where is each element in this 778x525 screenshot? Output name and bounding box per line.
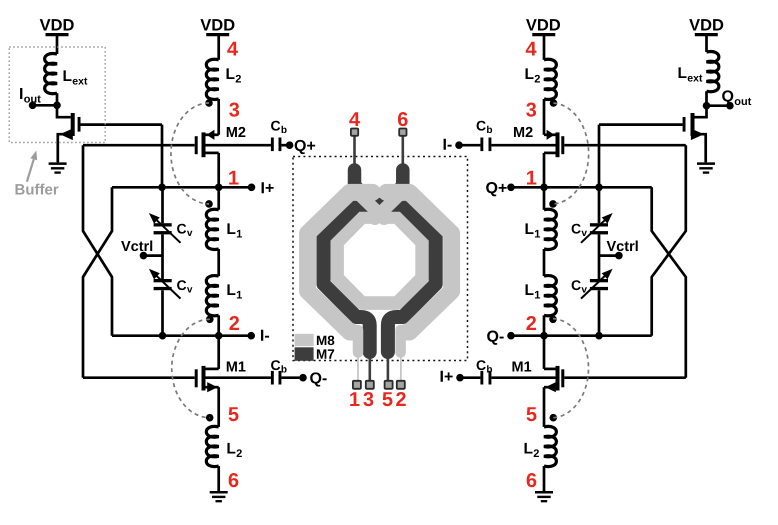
transformer M7 top via stubs [355,170,403,193]
Buffer label with arrow [16,151,59,195]
node 2 wire I- (left) [112,316,269,341]
inductor Lext (left buffer) [45,53,88,93]
transistor buffer left [57,105,162,162]
coupling dashed arc L1-L2 (right bottom) [553,319,588,418]
wire M1 to Cb (left bottom) [206,376,271,379]
cross-coupling X wires (left) [83,145,112,378]
coupling dot top of L1 (right) [549,200,557,208]
wire L2 to ground (right) [543,466,546,491]
coupling dot top of L1 (left) [205,200,213,208]
wire M2 gate to cross-coupling (left) [83,144,195,147]
inductor Lext (right buffer) [679,51,719,91]
node 3 label (right) [526,103,536,117]
legend metal M7 [295,347,335,361]
varactor Cv (right bottom) [572,269,613,299]
ground (left core) [210,492,228,501]
node I+ input (right) [441,371,464,382]
transformer port 1 lead and pad [350,349,361,406]
transformer winding M8 inner turn [337,217,422,303]
wire M2 to Cb (left top) [206,144,271,147]
varactor Cv (left top) [149,213,193,243]
cross-coupling X wires (right) [652,145,686,378]
transistor M2 (right) [514,127,564,187]
wire between L1 coils (left) [217,249,220,276]
wire M1 gate to cross-coupling (right) [564,376,686,379]
ground (left buffer) [49,164,67,173]
wire L2 to M2 drain [217,99,220,135]
capacitor Cb (right top) [459,121,492,151]
wire L2 to ground (left) [217,466,220,491]
node Iout [20,88,61,109]
transformer M7 crossover diagonals at top [355,185,403,208]
inductor L1 (right lower) [526,276,557,316]
node Q+ output (left) [286,140,315,154]
transformer port 6 via stub and pad [398,112,408,168]
transistor buffer right [599,106,707,163]
inductor L1 (left lower) [206,276,242,316]
coupling dashed arc L1-L2 (left bottom) [172,319,210,417]
wire node1 to L1 (left) [217,187,220,210]
capacitor Cb (left top) [271,121,287,151]
transformer port 4 via stub and pad [349,112,360,168]
wire L2 to M2 drain (right) [543,99,546,135]
buffer dashed outline box [9,47,105,143]
wire Cb to M2 (right top) [491,144,555,147]
ground (right core) [535,492,553,501]
capacitor Cb (right bottom) [463,360,493,384]
transformer winding M8 outer turn left half [308,192,373,332]
node 6 label (left) [229,473,239,487]
wire Lext to buffer drain [56,93,59,105]
node 5 label (right) [527,407,537,421]
legend metal M8 [295,334,335,346]
wire M1 gate to cross-coupling (left) [83,376,195,379]
transformer M8 crossover diagonals at top [361,196,398,219]
power rail VDD (left core) [200,19,234,34]
wire buffer gate tap to node 1 (left) [161,125,164,188]
node Q- output (left) [299,372,326,386]
wire L1 to node 2 (left) [217,315,220,335]
transistor M1 (right) [512,336,564,427]
wire node1 to L1 (right) [543,187,546,210]
wire L1 to node 2 (right) [543,315,546,335]
inductor L2 (left bottom) [206,426,242,466]
node Vctrl (left) [121,240,162,259]
coupling dot bottom of L1 (right) [549,316,557,324]
node 3 label (left) [229,103,239,117]
inductor L2 (left top) [206,59,241,99]
node 2 wire Q- (right) [487,316,652,345]
power rail VDD (right buffer) [689,19,723,34]
inductor L1 (left upper) [206,209,242,249]
coupling dot top of M2 (left) [205,99,213,107]
coupling dot below M1 (left) [206,414,214,422]
wire Cb to M1 (right bottom) [491,376,555,379]
varactor branch wire (right) [598,187,601,335]
node 1 wire Q+ (right) [486,171,652,197]
transformer winding M8 outer turn right half [387,192,452,332]
wire VDD to Lext [56,36,59,54]
node 4 label (left) [227,42,238,56]
wire M2 gate to cross-coupling (right) [564,144,686,147]
node I- input (right) [444,139,463,150]
coupling dot below M1 (right) [550,414,558,422]
transformer M8 bottom lead stubs [358,330,401,353]
ground (right buffer) [697,164,715,173]
transformer port 2 lead and pad [396,349,406,406]
coupling dot bottom of L1 (left) [206,316,214,324]
wire VDD to L2 (right) [543,36,546,60]
coupling dot top of M2 (right) [550,99,558,107]
varactor branch wire (left) [161,187,164,335]
transistor M1 (left) [195,336,246,427]
wire Lext to buffer drain (right) [705,91,708,106]
power rail VDD (left buffer) [40,19,74,34]
node 1 wire I+ (left) [112,171,274,193]
power rail VDD (right core) [526,19,560,34]
coupling dashed arc L2-L1 (left top) [171,103,209,204]
node Vctrl (right) [599,240,638,259]
capacitor Cb (left bottom) [271,360,300,384]
transformer winding M7 dark ring with bottom lead bends [324,205,436,352]
wire VDD to Lext (right) [705,36,708,52]
wire buffer gate tap to node 1 (right) [598,125,601,188]
transformer dotted outline box [293,157,468,361]
varactor Cv (left bottom) [149,269,193,299]
inductor L1 (right upper) [526,209,557,249]
coupling dashed arc L2-L1 (right top) [553,103,589,204]
wire between L1 coils (right) [543,249,546,276]
node 5 label (left) [229,407,239,421]
node 4 label (right) [526,42,537,56]
wire VDD to L2 [217,36,220,60]
transistor M2 (left) [195,127,246,187]
node 6 label (right) [527,473,537,487]
transformer port 5 lead and pad [383,354,393,406]
node Qout [703,90,752,109]
varactor Cv (right top) [572,213,613,243]
inductor L2 (right bottom) [525,426,557,466]
inductor L2 (right top) [526,59,557,99]
transformer port 3 lead and pad [363,354,373,406]
